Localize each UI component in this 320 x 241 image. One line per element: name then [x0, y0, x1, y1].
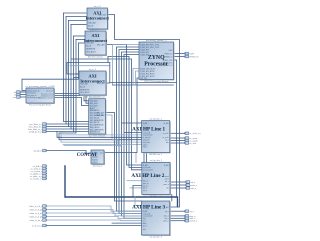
svg-text:axi_mem_intercon: axi_mem_intercon: [89, 96, 105, 99]
svg-text:en_in: en_in: [143, 190, 147, 192]
wire thick_tap_hp2: [133, 186, 142, 198]
wire hp1_hp2_c: [135, 152, 137, 162]
wire hp2_stub1: [127, 180, 142, 182]
wire zynq_bot2: [113, 84, 174, 86]
wire b4_m1: [106, 115, 122, 146]
wire stub_b3_p1: [76, 73, 79, 75]
port ac_recdat: [30, 177, 47, 180]
wire portD2_w: [47, 210, 142, 214]
wire b5_o3: [54, 98, 89, 106]
port hp1 sclk: [184, 142, 196, 145]
port ext_reset_in: [14, 93, 21, 96]
svg-text:AXI Interconnect: AXI Interconnect: [88, 56, 103, 59]
wire hp1_r1: [170, 137, 184, 139]
wire right_vert_fclk: [176, 60, 178, 197]
port aux_reset_in: [13, 96, 21, 99]
svg-text:vld_in: vld_in: [143, 188, 147, 190]
svg-text:mclk_i: mclk_i: [143, 147, 148, 149]
svg-text:USBIND_0: USBIND_0: [164, 56, 172, 58]
svg-text:s_axi_aclk: s_axi_aclk: [142, 213, 150, 215]
axi interconnect U2: [84, 29, 108, 59]
svg-text:M01_AXI: M01_AXI: [97, 114, 105, 117]
svg-text:FIXED_IO: FIXED_IO: [165, 53, 173, 55]
wire b3_m00_stub: [106, 82, 110, 84]
port group A sws_4bits: [29, 123, 47, 126]
wire hp1_s0: [122, 122, 142, 124]
axi hp line 3 U10: [132, 201, 171, 239]
wire hp1_hp2_b: [146, 152, 148, 162]
svg-text:ZYNQ7 Processing System: ZYNQ7 Processing System: [144, 80, 169, 83]
svg-text:hdmi_tx_clk_p: hdmi_tx_clk_p: [29, 205, 43, 208]
wire hp2_stub2: [130, 187, 142, 189]
wire portA2_w: [47, 126, 69, 128]
wire portA3_w: [47, 128, 71, 130]
svg-text:Interconnect: Interconnect: [86, 16, 110, 21]
wire hp3_r2: [170, 217, 184, 219]
svg-text:sdo: sdo: [166, 187, 169, 189]
svg-text:ac_mclk_in_i: ac_mclk_in_i: [189, 133, 201, 135]
wire concat_loop: [64, 145, 122, 147]
wire zynq_s1: [113, 45, 140, 86]
axi hp line 2 U9: [131, 160, 171, 198]
wire b5_in3: [21, 96, 26, 98]
svg-text:M00_AXI: M00_AXI: [97, 82, 105, 85]
wire zynq_fclk_right: [174, 59, 177, 61]
wire portD3_w: [47, 213, 142, 216]
wire zynq_bot1: [110, 63, 177, 83]
svg-text:AXI HP Line 1: AXI HP Line 1: [149, 153, 162, 156]
svg-text:S_AXI_HP2: S_AXI_HP2: [140, 53, 149, 56]
wire net_b2_s00: [22, 43, 79, 91]
svg-text:s_axi_aclk: s_axi_aclk: [142, 132, 150, 134]
svg-text:processing_system7_0: processing_system7_0: [146, 39, 167, 42]
port hdmi_d1: [30, 212, 48, 215]
svg-text:axi_mem_intercon: axi_mem_intercon: [89, 135, 105, 138]
wire stub_b1_p3: [69, 20, 87, 22]
wire hp2_hp3_a: [171, 194, 173, 201]
port slowest_sync_clk: [14, 91, 21, 94]
svg-text:xlconcat_0: xlconcat_0: [93, 165, 103, 168]
svg-text:Processor System Reset: Processor System Reset: [29, 104, 51, 107]
svg-text:sd_o: sd_o: [165, 140, 169, 142]
svg-text:AXI HP Line 1: AXI HP Line 1: [132, 126, 165, 132]
port hp1 ac_mute: [184, 137, 198, 140]
port ac_pbdat: [30, 172, 47, 175]
svg-text:ac_sclk: ac_sclk: [189, 143, 196, 145]
svg-text:sync_i: sync_i: [143, 225, 148, 227]
svg-text:pwm3_o: pwm3_o: [189, 221, 197, 223]
wire hp2_r2: [170, 184, 185, 186]
wire stub_b2_p1: [74, 35, 86, 37]
wire hp1_r3: [170, 142, 184, 144]
wire net_clk_b1b: [69, 21, 89, 127]
svg-text:irq_o: irq_o: [165, 211, 169, 213]
port hdmi_d0: [30, 208, 48, 211]
svg-text:sclk: sclk: [166, 142, 169, 144]
svg-text:clk_in: clk_in: [143, 173, 147, 175]
port hdmi_de: [30, 219, 48, 222]
wire gp0_drop: [107, 57, 109, 63]
wire stub_b1_p1: [64, 12, 87, 14]
svg-text:axi_hp_line_3: axi_hp_line_3: [149, 237, 162, 239]
wire hp1_hp2_a: [143, 152, 145, 162]
wire b5_in2: [21, 94, 26, 96]
wire stub_b2_p2: [76, 39, 85, 41]
wire net_clk_b2: [74, 36, 89, 132]
wire hp1_pu3: [61, 132, 142, 143]
wire trunk_t8: [124, 55, 142, 219]
svg-text:ACLK: ACLK: [86, 44, 92, 47]
wire portD1_w: [47, 206, 142, 211]
svg-text:axi_ic_2: axi_ic_2: [89, 69, 97, 71]
port ac_bclk: [33, 165, 47, 168]
wire b4_m0: [106, 113, 142, 202]
wire fclk_mid2: [70, 65, 110, 67]
svg-text:ac_recdat_i_r: ac_recdat_i_r: [30, 177, 42, 180]
port hp3 irq: [184, 210, 195, 213]
port vga_hsync: [32, 224, 47, 227]
wire b1_m00_loop: [108, 15, 180, 208]
port ac_mclk_in: [31, 167, 48, 170]
wire trunk_t5: [117, 47, 142, 211]
svg-text:S00_AXI: S00_AXI: [86, 41, 94, 44]
svg-text:hdmi_tx_de_o: hdmi_tx_de_o: [30, 219, 43, 222]
wire portB_w: [47, 151, 91, 154]
svg-text:FIXED_IO: FIXED_IO: [189, 56, 199, 58]
port group A leds_4bits: [28, 128, 47, 131]
port hdmi_d2: [30, 215, 48, 218]
svg-text:IRQ_F2P: IRQ_F2P: [140, 78, 148, 80]
wire hp3_r0: [170, 210, 184, 212]
wire portA1_w: [47, 123, 66, 125]
wire trunk_t7: [122, 52, 142, 216]
wire b2_m00_loop: [106, 45, 142, 166]
port irq_in: [33, 149, 47, 152]
svg-text:ARESETN: ARESETN: [86, 47, 96, 50]
wire net_rst_b2: [59, 40, 142, 140]
wire hp1_r2: [170, 140, 184, 142]
svg-text:irq_f2p_in: irq_f2p_in: [33, 150, 42, 152]
port hp1 ac_mclk: [184, 132, 202, 135]
wire portA4_w: [47, 131, 74, 133]
svg-text:AXI HP Line 3: AXI HP Line 3: [132, 204, 165, 210]
port hp2 led_o: [185, 181, 196, 184]
wire stub_b1_p4: [71, 24, 86, 26]
wire b5_in1: [21, 91, 26, 93]
svg-text:ACLK: ACLK: [88, 24, 94, 27]
svg-text:CONCAT: CONCAT: [77, 153, 98, 158]
wire passunder_hp1: [62, 134, 142, 136]
port hp1 sdata_o: [184, 139, 198, 142]
svg-text:M00_ACLK: M00_ACLK: [80, 91, 90, 94]
wire fclk_mid: [72, 59, 142, 170]
axi interconnect U1: [86, 6, 110, 33]
svg-text:S00_AXI: S00_AXI: [88, 21, 96, 24]
svg-text:pwm_o: pwm_o: [163, 221, 168, 223]
svg-text:hdmi_tx_d_p2: hdmi_tx_d_p2: [30, 215, 43, 218]
svg-text:pmod_jb_tri_io: pmod_jb_tri_io: [29, 130, 43, 133]
port group A pmod_jb: [29, 130, 47, 133]
wire zynq_ll1: [133, 69, 139, 86]
svg-text:In3[0:0]: In3[0:0]: [92, 162, 98, 164]
wire b5_o1: [54, 94, 89, 101]
svg-text:In2[0:0]: In2[0:0]: [92, 159, 98, 161]
svg-text:sdo_o: sdo_o: [190, 188, 196, 190]
wire hp2_r1: [170, 181, 185, 183]
wire stub_b1_p2: [66, 16, 86, 18]
wire b5_o2: [54, 96, 89, 104]
svg-text:axi_ic_0: axi_ic_0: [94, 6, 102, 8]
wire net_rst_b1b: [71, 25, 89, 130]
svg-text:led_o: led_o: [165, 181, 169, 183]
svg-text:chan_in: chan_in: [143, 185, 149, 187]
wire hp1_pu4: [63, 144, 142, 146]
svg-text:hdmi_tx_d_p0: hdmi_tx_d_p0: [30, 208, 43, 211]
svg-text:ac_mclk: ac_mclk: [163, 133, 169, 135]
wire hp1_r0: [170, 132, 184, 134]
wire stub_b2_p3: [79, 42, 86, 44]
svg-text:ARESETN2: ARESETN2: [90, 131, 100, 134]
wire concat_dout: [104, 78, 139, 153]
svg-text:AXI HP Line 2: AXI HP Line 2: [131, 173, 164, 179]
port ac_muten: [31, 170, 47, 173]
wire b3_s00_feed: [67, 63, 110, 75]
port hp2 sdo: [185, 187, 197, 190]
svg-text:pwm_o: pwm_o: [190, 185, 197, 187]
wire zynq_ll2: [136, 71, 140, 85]
wire passunder1: [57, 132, 142, 138]
svg-text:M00_AXI: M00_AXI: [97, 43, 105, 46]
port DDR: [184, 52, 194, 55]
svg-text:S00_AXI: S00_AXI: [80, 82, 88, 85]
port hdmi_clk: [29, 205, 47, 208]
port hp3 dout: [184, 215, 196, 218]
wire trunk_t6: [119, 50, 142, 214]
port hp2 pwm_o: [185, 184, 198, 187]
svg-text:pwm_o: pwm_o: [164, 184, 169, 186]
svg-text:axi_ic_1: axi_ic_1: [92, 29, 100, 31]
svg-text:rst_processing_system7_0_50M: rst_processing_system7_0_50M: [26, 85, 55, 88]
svg-text:FCLK_RESET0_N: FCLK_RESET0_N: [158, 65, 173, 67]
wire net_clk_b1a: [64, 13, 89, 122]
wire hp1_s1: [124, 132, 142, 134]
axi mem interconnect U4: [89, 96, 107, 138]
wire portD5_w: [47, 219, 142, 222]
svg-text:aud_mclk: aud_mclk: [143, 140, 150, 142]
svg-text:sync_in: sync_in: [143, 183, 149, 185]
wire fixedio_w: [174, 56, 185, 58]
processing reset U5: [26, 85, 55, 107]
concat U7: [91, 150, 105, 168]
svg-text:m_axis_clk: m_axis_clk: [143, 137, 151, 139]
zynq processor U6: [139, 39, 175, 83]
svg-text:s_axi_aclk: s_axi_aclk: [143, 167, 151, 169]
svg-text:DDR: DDR: [189, 53, 194, 55]
wire portD4_w: [47, 217, 142, 219]
svg-text:led_o: led_o: [165, 218, 169, 220]
wire stub_b3_p2: [74, 77, 80, 79]
wire thick_tap_hp3: [135, 197, 142, 206]
svg-text:hdmi_tx_d_p1: hdmi_tx_d_p1: [30, 212, 43, 215]
port ac_pblrc: [30, 175, 47, 178]
svg-text:axi_hp_line_1: axi_hp_line_1: [149, 118, 162, 120]
wire b4_m0b: [112, 222, 142, 224]
wire fclk_thick: [65, 166, 178, 207]
port hp3 pwm: [184, 219, 198, 222]
port group A btns_4bits: [29, 125, 47, 128]
wire ddr_w: [174, 53, 185, 55]
port FIXED_IO: [184, 55, 199, 58]
wire hp3_r3: [170, 220, 184, 222]
axi hp line 1 U8: [132, 118, 171, 156]
svg-text:M00_AXI: M00_AXI: [99, 13, 107, 16]
svg-text:AXI HP Line 2: AXI HP Line 2: [150, 195, 163, 198]
axi interconnect U3: [79, 69, 107, 99]
svg-text:M00_ACLK: M00_ACLK: [86, 50, 96, 53]
port hp3 led: [184, 217, 196, 220]
wire hp2_r3: [170, 187, 185, 189]
svg-text:iic_0_scl_io: iic_0_scl_io: [32, 225, 43, 227]
wire portE_w: [47, 225, 142, 227]
wire hp3_r1: [170, 215, 184, 217]
wire gp0_box: [108, 57, 142, 168]
wire net_rst_b1a: [66, 17, 89, 125]
svg-text:ACLK: ACLK: [80, 85, 86, 88]
svg-text:axi_hp_line_2: axi_hp_line_2: [150, 160, 163, 162]
svg-text:aux: aux: [13, 97, 16, 99]
